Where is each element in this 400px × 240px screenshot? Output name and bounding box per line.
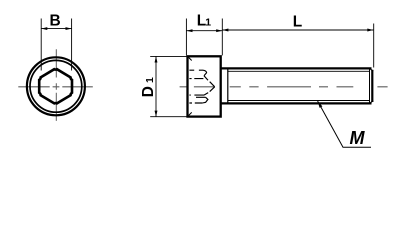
M leader arrow <box>318 101 323 108</box>
L extension line right <box>373 24 375 68</box>
head chamfer line bottom-left <box>189 112 192 115</box>
D1 extension line top <box>150 55 187 57</box>
horizontal centerline (left view) <box>18 86 93 88</box>
end chamfer vertical line <box>369 68 371 103</box>
B extension line left <box>40 19 42 71</box>
shank end <box>371 70 373 102</box>
socket line three (broken) <box>189 94 204 96</box>
hex socket (vertices top/bottom, flats left/right, rounded corners) <box>39 69 72 103</box>
L arrow left <box>222 29 228 32</box>
socket line top <box>189 69 203 71</box>
L1 extension line left <box>185 19 187 56</box>
L arrow right <box>367 29 373 32</box>
socket line two <box>189 78 203 80</box>
shank end chamfer bottom <box>370 101 374 104</box>
svg-text:L: L <box>293 13 302 30</box>
thread minor line top <box>228 70 370 72</box>
D1 arrow top <box>155 56 158 62</box>
M leader line <box>318 101 371 147</box>
L1 arrow left <box>186 29 192 32</box>
socket cone lower arm <box>204 87 215 95</box>
svg-text:B: B <box>49 13 60 30</box>
L1 extension line right <box>221 19 223 56</box>
svg-text:M: M <box>350 128 366 148</box>
socket bottom curl <box>202 97 208 103</box>
thread minor line bottom <box>228 100 370 102</box>
L1 dimension line <box>186 30 222 32</box>
thread start line <box>227 68 229 104</box>
side view centerline (chain) <box>180 86 388 88</box>
B dimension line <box>41 28 71 30</box>
svg-text:D: D <box>140 86 157 97</box>
head chamfer line top-left <box>189 58 192 61</box>
socket cone upper arm <box>204 76 215 87</box>
B arrow right <box>66 27 72 30</box>
vertical centerline (left view) <box>55 49 57 123</box>
shank outline top <box>221 67 372 69</box>
socket top curl <box>203 70 207 76</box>
head outline (side view) <box>188 56 221 116</box>
L1 arrow right <box>216 29 222 32</box>
shank outline bottom <box>221 102 372 104</box>
L dimension line <box>222 29 373 31</box>
svg-text:1: 1 <box>144 77 156 83</box>
socket line bottom (broken) <box>189 102 202 104</box>
D1 extension line bottom <box>150 116 187 118</box>
head chamfer circle <box>30 60 82 112</box>
shank end chamfer top <box>370 69 374 72</box>
D1 dimension line <box>155 56 157 116</box>
svg-text:1: 1 <box>205 17 211 29</box>
outer head circle <box>27 57 85 115</box>
socket line four <box>196 96 206 98</box>
B extension line right <box>71 19 73 71</box>
B arrow left <box>41 27 47 30</box>
D1 arrow bottom <box>155 111 158 117</box>
